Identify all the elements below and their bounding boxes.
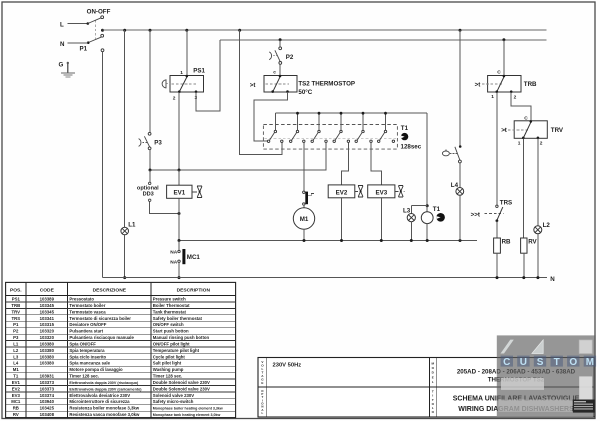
svg-text:Termostato vasca: Termostato vasca [69,309,106,314]
svg-text:50°C: 50°C [298,89,312,96]
svg-text:ON/OFF pilot light: ON/OFF pilot light [153,341,190,346]
svg-text:E: E [432,375,434,379]
svg-text:L: L [262,411,264,415]
svg-text:TRS: TRS [11,316,20,321]
svg-text:>t: >t [475,81,481,88]
svg-text:103380: 103380 [40,341,55,346]
svg-text:EV1: EV1 [12,380,21,385]
svg-text:N: N [60,41,65,48]
svg-text:O: O [569,357,577,368]
svg-text:Double Solenoid valve 230V: Double Solenoid valve 230V [153,386,210,391]
svg-text:Monophase tank heating element: Monophase tank heating element 3,0kw [153,413,221,417]
svg-text:G: G [59,62,64,69]
svg-text:RV: RV [528,239,537,246]
svg-text:TRV: TRV [12,309,21,314]
svg-text:P2: P2 [286,54,294,61]
svg-text:Pressostato: Pressostato [69,297,94,302]
svg-text:Elettrovalvola doppia 230V (ca: Elettrovalvola doppia 230V (caricamento) [69,387,142,391]
svg-text:2: 2 [173,96,176,102]
svg-text:Spia mancanza sale: Spia mancanza sale [69,361,110,366]
svg-text:NA: NA [170,259,177,265]
svg-text:Timer 128 sec.: Timer 128 sec. [153,374,183,379]
svg-text:L2: L2 [13,348,19,353]
svg-text:M: M [586,357,594,368]
svg-text:EV2: EV2 [12,386,21,391]
svg-text:103389: 103389 [40,297,55,302]
svg-text:1: 1 [180,70,183,76]
svg-text:103320: 103320 [40,335,55,340]
svg-text:Deviatore ON/OFF: Deviatore ON/OFF [69,322,106,327]
svg-text:RV: RV [13,412,19,417]
svg-text:PS1: PS1 [12,297,21,302]
svg-text:103373: 103373 [40,386,55,391]
svg-text:103380: 103380 [40,348,55,353]
svg-text:Microinterruttore di sicurezza: Microinterruttore di sicurezza [69,399,130,404]
svg-text:Elettrovalvola doppia 230V (ri: Elettrovalvola doppia 230V (risciacquo) [69,381,139,385]
svg-text:RB: RB [502,239,511,246]
svg-text:Double Solenoid valve 230V: Double Solenoid valve 230V [153,380,210,385]
svg-text:TRS: TRS [500,199,512,206]
svg-text:L: L [60,22,64,29]
svg-text:103341: 103341 [40,316,55,321]
svg-text:optional: optional [137,185,159,191]
svg-text:E: E [261,381,263,385]
svg-text:103345: 103345 [40,303,55,308]
svg-text:T1: T1 [13,374,19,379]
svg-text:Spia temperatura: Spia temperatura [69,348,105,353]
svg-text:103931: 103931 [40,374,55,379]
svg-text:Motore pompa di lavaggio: Motore pompa di lavaggio [69,367,123,372]
svg-text:DESCRIPTION: DESCRIPTION [177,288,211,294]
svg-text:Pressure switch: Pressure switch [153,297,186,302]
svg-text:Spia ciclo inserito: Spia ciclo inserito [69,354,106,359]
svg-text:TRV: TRV [551,127,564,134]
svg-text:MC1: MC1 [11,399,21,404]
svg-text:Tank thermostat: Tank thermostat [153,309,187,314]
svg-text:EV1: EV1 [173,190,185,197]
svg-text:MC1: MC1 [187,254,201,261]
svg-text:EV3: EV3 [375,189,387,196]
svg-text:103380: 103380 [40,361,55,366]
svg-text:P3: P3 [154,139,162,146]
svg-text:103408: 103408 [40,412,55,417]
svg-text:2: 2 [514,94,517,100]
svg-text:Temperature pilot light: Temperature pilot light [153,348,200,353]
svg-text:128sec: 128sec [401,143,422,150]
svg-text:EV3: EV3 [12,393,21,398]
svg-text:RB: RB [13,406,19,411]
svg-text:230V 50Hz: 230V 50Hz [273,363,302,369]
svg-text:Safety boiler thermostat: Safety boiler thermostat [153,316,203,321]
svg-text:Resistenza boiler monofase 3,3: Resistenza boiler monofase 3,3kw [69,406,139,411]
svg-text:NA: NA [170,250,177,256]
svg-text:M1: M1 [300,216,309,223]
svg-text:Spia ON/OFF: Spia ON/OFF [69,341,96,346]
svg-text:Resistenza vasca monofase 3,0k: Resistenza vasca monofase 3,0kw [69,412,140,417]
svg-text:Termostato di sicurezza boiler: Termostato di sicurezza boiler [69,316,131,321]
svg-text:P2: P2 [13,329,19,334]
svg-text:Termostato boiler: Termostato boiler [69,303,105,308]
svg-text:Monophase boiler heating eleme: Monophase boiler heating element 3,3kw [153,407,223,411]
svg-text:N: N [550,276,555,283]
svg-text:T1: T1 [433,206,441,213]
svg-text:Cycle pilot light: Cycle pilot light [153,354,186,359]
svg-text:C: C [497,70,501,76]
svg-text:103374: 103374 [40,393,55,398]
svg-text:L: L [432,380,434,384]
svg-text:T: T [554,357,560,368]
svg-text:M: M [432,361,435,365]
svg-text:Pulsantiera risciacquo manuale: Pulsantiera risciacquo manuale [69,335,134,340]
svg-text:1: 1 [491,94,494,100]
svg-text:2: 2 [540,141,543,147]
svg-text:L3: L3 [13,354,19,359]
svg-text:L3: L3 [403,207,411,214]
svg-text:P3: P3 [13,335,19,340]
svg-text:Timer 128 sec.: Timer 128 sec. [69,374,99,379]
svg-text:103315: 103315 [40,322,55,327]
svg-text:L1: L1 [13,341,19,346]
svg-text:103320: 103320 [40,329,55,334]
svg-text:U: U [520,357,527,368]
svg-text:C: C [503,357,510,368]
svg-text:103425: 103425 [40,406,55,411]
svg-text:L2: L2 [543,222,551,229]
svg-text:Manual rinsing push botton: Manual rinsing push botton [153,335,210,340]
svg-text:103373: 103373 [40,380,55,385]
svg-text:CODE: CODE [40,288,55,294]
svg-text:M1: M1 [13,367,20,372]
svg-text:103940: 103940 [40,399,55,404]
svg-text:Boiler Thermostat: Boiler Thermostat [153,303,190,308]
svg-text:Salt pilot light: Salt pilot light [153,361,182,366]
svg-text:Safety micro-switch: Safety micro-switch [153,399,194,404]
svg-text:P1: P1 [13,322,19,327]
svg-text:c: c [273,70,276,75]
svg-text:L4: L4 [13,361,19,366]
svg-text:Washing pump: Washing pump [153,367,184,372]
svg-text:Elettrovalvola deviatrice 230V: Elettrovalvola deviatrice 230V [69,393,130,398]
svg-text:S: S [537,357,544,368]
svg-text:ON/OFF switch: ON/OFF switch [153,322,184,327]
svg-text:Solenoid valve 230V: Solenoid valve 230V [153,393,194,398]
svg-text:POS.: POS. [10,288,22,294]
svg-text:Pulsantiera start: Pulsantiera start [69,329,103,334]
svg-text:TS2 THERMOSTOP: TS2 THERMOSTOP [298,81,355,88]
svg-text:P1: P1 [80,46,88,53]
svg-text:DD3: DD3 [143,192,154,198]
svg-text:1: 1 [518,141,521,147]
svg-text:>t: >t [250,82,256,89]
svg-text:EV2: EV2 [336,189,348,196]
svg-text:103345: 103345 [40,309,55,314]
svg-text:Start push botton: Start push botton [153,329,189,334]
svg-text:ON-OFF: ON-OFF [87,9,111,16]
svg-text:DESCRIZIONE: DESCRIZIONE [93,288,127,294]
svg-text:>t: >t [501,127,507,134]
svg-text:L1: L1 [128,222,136,229]
svg-text:T1: T1 [401,125,409,132]
svg-text:>>t: >>t [471,212,480,219]
svg-text:PS1: PS1 [193,68,205,75]
svg-text:103380: 103380 [40,354,55,359]
svg-text:TRB: TRB [11,303,20,308]
svg-text:TRB: TRB [524,81,537,88]
